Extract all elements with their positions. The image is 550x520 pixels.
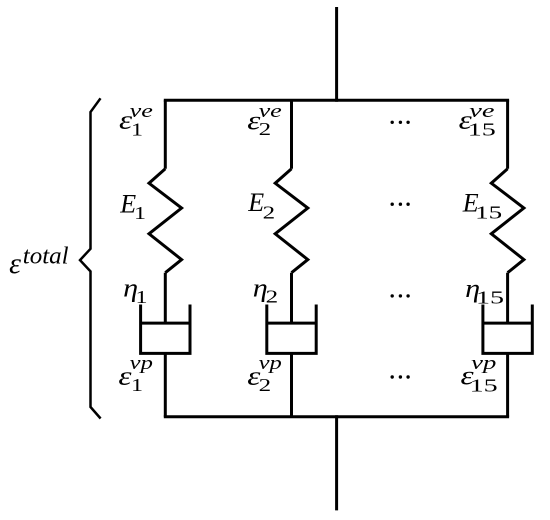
svg-text:1: 1 [136,287,148,307]
wire: branch 1 middle [164,273,167,323]
wire: top bar [164,99,509,102]
svg-text:vp: vp [471,353,496,374]
wire: branch 1 bottom [164,353,167,416]
label E15 [462,188,503,222]
label eta2 [253,273,278,306]
svg-text:1: 1 [131,119,143,139]
node: dots row vp [391,375,410,378]
dashpot eta15 cup [483,305,532,354]
wire: branch 15 bottom [506,353,509,416]
svg-text:2: 2 [266,287,279,307]
svg-text:15: 15 [468,119,496,139]
svg-text:2: 2 [259,375,272,395]
svg-text:total: total [23,243,69,269]
svg-text:15: 15 [475,203,502,223]
wire: branch 1 top [164,100,167,169]
wire: branch 2 bottom [290,353,293,416]
wire: branch 2 top [290,100,293,169]
wire: branch 2 middle [290,273,293,323]
brace: left curly brace [80,98,101,418]
svg-text:15: 15 [470,375,498,395]
svg-text:2: 2 [259,119,272,139]
label epsilon 15 vp [461,353,498,395]
spring E1 [149,169,182,273]
wire: bottom stem [335,415,338,510]
svg-text:vp: vp [259,353,282,374]
label epsilon 2 ve [247,101,282,139]
svg-text:ε: ε [9,247,21,280]
label epsilon 1 ve [119,101,153,140]
label epsilon total [9,243,69,280]
label epsilon 15 ve [459,101,496,139]
spring E2 [275,169,308,273]
svg-text:15: 15 [476,288,504,308]
dashpot eta1 cup [141,305,190,354]
wire: bottom bar [164,415,509,418]
wire: branch 15 middle [506,273,509,323]
node: dots row ve [391,121,410,124]
svg-text:1: 1 [134,203,146,223]
label epsilon 2 vp [247,353,282,395]
label epsilon 1 vp [118,353,152,395]
node: dots row E [391,203,410,206]
wire: top stem [335,7,338,102]
spring E15 [491,169,524,273]
label E2 [247,188,275,223]
dashpot eta2 cup [267,305,316,354]
wire: branch 15 top [506,100,509,169]
svg-text:1: 1 [131,375,143,395]
node: dots row eta [391,294,410,297]
label E1 [119,189,146,223]
label eta15 [465,274,504,308]
dashpot eta2 piston [267,322,316,325]
dashpot eta1 piston [141,322,190,325]
svg-text:2: 2 [263,203,276,223]
label eta1 [123,273,147,307]
svg-text:vp: vp [130,353,153,374]
dashpot eta15 piston [483,322,532,325]
